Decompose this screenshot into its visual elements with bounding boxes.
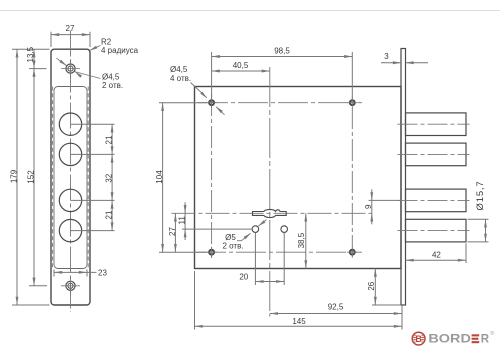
- svg-text:4 радиуса: 4 радиуса: [101, 46, 139, 55]
- svg-text:Ø4,5: Ø4,5: [170, 65, 188, 74]
- follower lever shape: [253, 209, 287, 217]
- bolt 2 side view with centerline: [398, 143, 470, 166]
- dimension 13,5: [26, 46, 35, 68]
- hidden edge dashed left: [52, 87, 54, 269]
- dimension 42: [406, 243, 467, 263]
- keyhole vertical centerline: [269, 67, 271, 317]
- left hole column centerline: [211, 94, 213, 258]
- faceplate vertical centerline: [70, 31, 72, 313]
- border frame top faint line: [0, 10, 500, 12]
- screw hole bottom (left view): [61, 276, 80, 295]
- svg-text:13,5: 13,5: [26, 46, 35, 62]
- dimension 104: [155, 103, 207, 253]
- svg-text:38,5: 38,5: [297, 232, 306, 248]
- svg-text:R: R: [481, 334, 490, 346]
- dimensions 21 32 21 (circle spacing): [105, 124, 114, 230]
- svg-text:27: 27: [66, 24, 75, 33]
- svg-text:3: 3: [384, 52, 389, 61]
- svg-text:BORD: BORD: [428, 334, 471, 346]
- mounting hole top-right Ø4,5: [347, 97, 358, 108]
- svg-text:Ø15,7: Ø15,7: [475, 181, 486, 211]
- svg-text:23: 23: [98, 268, 107, 277]
- svg-text:®: ®: [490, 330, 494, 337]
- svg-text:26: 26: [367, 281, 376, 290]
- svg-text:98,5: 98,5: [274, 47, 290, 56]
- svg-text:179: 179: [9, 169, 18, 183]
- svg-text:40,5: 40,5: [233, 61, 249, 70]
- mounting hole top-left Ø4,5: [206, 97, 217, 108]
- bolt hole circle 4 (left view): [59, 219, 81, 241]
- bolt 3 side view with centerline: [398, 189, 470, 212]
- mounting hole bottom-right Ø4,5: [347, 247, 358, 258]
- dimension 179: [9, 49, 18, 305]
- leader Ø5 2 отв.: [222, 220, 266, 251]
- dimension 98,5: [212, 47, 353, 100]
- svg-text:20: 20: [239, 272, 248, 281]
- dimension 145: [195, 317, 403, 328]
- dimension 11: [177, 202, 252, 240]
- dimension 3 (plate thickness): [381, 52, 428, 64]
- dimension 26: [367, 269, 401, 306]
- svg-text:27: 27: [168, 227, 177, 236]
- dimension 27 (hole offset): [168, 213, 177, 252]
- svg-text:2 отв.: 2 отв.: [222, 242, 243, 251]
- dimension Ø15,7: [468, 181, 489, 242]
- svg-text:21: 21: [105, 135, 114, 144]
- faceplate outline (left view): [51, 49, 90, 305]
- svg-text:104: 104: [155, 170, 164, 184]
- svg-text:21: 21: [105, 210, 114, 219]
- svg-text:4 отв.: 4 отв.: [170, 74, 191, 83]
- svg-text:32: 32: [105, 173, 114, 182]
- bottom holes row centerline: [196, 251, 362, 253]
- key axis horizontal centerline: [172, 212, 373, 214]
- svg-text:152: 152: [27, 170, 36, 184]
- hole Ø5 left: [252, 226, 259, 233]
- bolt hole circle 2 (left view): [59, 143, 81, 165]
- leader R2 4 радиуса: [89, 38, 138, 56]
- bolt hole circle 1 (left view): [59, 113, 81, 135]
- lock body outline: [195, 87, 402, 269]
- right hole column centerline: [351, 107, 353, 258]
- extension lines bottom dims: [195, 271, 403, 330]
- svg-text:B: B: [415, 334, 422, 344]
- dimension 92,5: [270, 303, 402, 315]
- dimension 20: [239, 233, 284, 285]
- dimension 23 (recess width): [54, 268, 107, 277]
- svg-text:9: 9: [364, 204, 373, 209]
- dimension 9: [364, 189, 400, 224]
- mounting hole bottom-left Ø4,5: [206, 247, 217, 258]
- extension lines circle centers: [71, 124, 115, 230]
- bolt 1 side view with centerline: [398, 113, 470, 136]
- hidden edge dashed right: [87, 87, 89, 269]
- faceplate side view: [401, 49, 406, 306]
- svg-text:42: 42: [432, 251, 441, 260]
- leader Ø4,5 2 отв.: [57, 58, 124, 90]
- faceplate recess outline: [54, 87, 87, 269]
- dimension 40,5: [212, 61, 270, 73]
- logo BORDER: [412, 330, 495, 346]
- svg-text:145: 145: [292, 317, 306, 326]
- top holes row centerline: [198, 102, 362, 104]
- screw hole top (left view): [61, 59, 80, 78]
- bolt hole circle 3 (left view): [59, 189, 81, 211]
- svg-text:2 отв.: 2 отв.: [102, 81, 123, 90]
- leader Ø4,5 4 отв.: [170, 65, 225, 115]
- dimension 27 (plate width): [51, 24, 90, 47]
- extension lines left side: [12, 49, 50, 305]
- dimension 152: [27, 69, 36, 286]
- hole Ø5 right: [281, 226, 288, 233]
- dimension 38,5: [297, 213, 307, 268]
- svg-text:92,5: 92,5: [328, 303, 344, 312]
- bolt 4 side view with centerline: [398, 219, 470, 242]
- svg-text:11: 11: [177, 216, 186, 225]
